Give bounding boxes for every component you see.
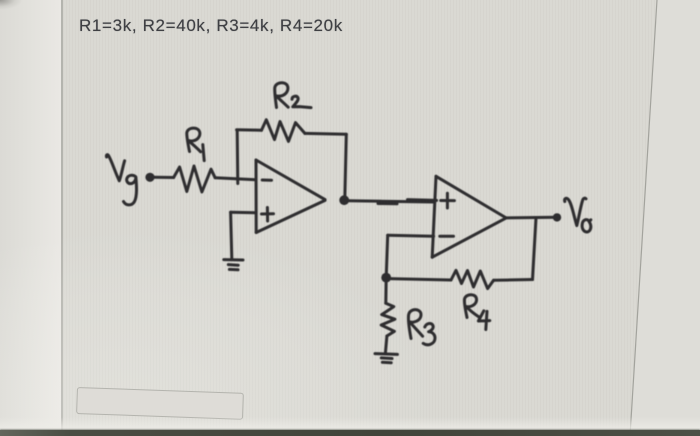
op-amp U1 plus sign: [262, 208, 274, 222]
wire noninverting input left: [231, 211, 256, 215]
wire feedback top rail right: [305, 132, 346, 136]
ground (op-amp U1 + input): [224, 260, 243, 270]
wire feedback right vertical down to output node: [345, 134, 347, 199]
label R4: [464, 295, 489, 330]
label R1: [187, 128, 204, 160]
node U1 output dot: [339, 195, 349, 205]
resistor R2: [262, 120, 305, 142]
wire U2 inverting input left: [388, 235, 434, 236]
wire overlap stroke: [378, 202, 397, 205]
wire feedback top rail left: [237, 128, 262, 131]
wire feedback left vertical: [236, 130, 240, 183]
wire down to ground: [231, 212, 232, 258]
wire R3 to ground: [385, 336, 387, 353]
wire R4 to right vertical: [494, 278, 533, 282]
node Vo terminal dot: [553, 213, 561, 221]
op-amp U2 minus sign: [440, 235, 454, 238]
resistor R4: [451, 270, 494, 288]
wire overlap stroke upper: [408, 198, 437, 202]
node feedback junction dot: [381, 273, 391, 283]
op-amp U2: [432, 176, 505, 257]
wire down to feedback node: [386, 235, 388, 277]
wire U1 output to U2 + input: [349, 201, 434, 202]
node Vg label: [106, 155, 136, 205]
wire node to R4: [389, 279, 452, 280]
resistor R3: [381, 303, 395, 336]
resistor R1: [174, 166, 216, 192]
wire node down to R3: [384, 278, 387, 304]
wire R1 to inverting input (node at feedback tap): [215, 178, 256, 180]
wire feedback right vertical up: [533, 218, 537, 280]
wire Vg to R1: [155, 176, 174, 179]
ground (R3 bottom): [375, 354, 397, 363]
op-amp U2 plus sign: [441, 193, 455, 208]
node Vo label: [565, 198, 591, 232]
op-amp U1: [256, 160, 325, 233]
wire U2 output: [506, 216, 557, 220]
op-amp U1 minus sign: [262, 179, 271, 182]
label R3: [408, 310, 435, 345]
node Vg terminal dot: [145, 173, 154, 182]
label R2: [275, 83, 311, 108]
